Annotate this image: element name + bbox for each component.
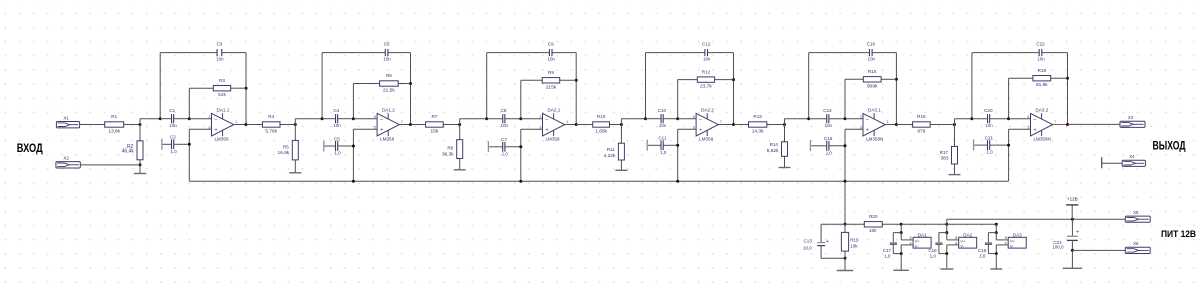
power pins unit DA1 (900, 223, 903, 226)
svg-text:6: 6 (693, 115, 695, 119)
IC power box DA1 (913, 237, 931, 248)
svg-text:ВЫХОД: ВЫХОД (1153, 140, 1187, 153)
capacitor C1 10n (input) (160, 118, 171, 120)
svg-text:LM358N: LM358N (866, 137, 883, 142)
svg-text:–: – (699, 117, 702, 123)
svg-text:R11: R11 (607, 147, 616, 152)
wire R19 bottom (844, 251, 846, 258)
wire non-inverting input (521, 128, 543, 130)
svg-text:ВХОД: ВХОД (17, 141, 43, 155)
svg-text:1,0: 1,0 (884, 253, 891, 258)
svg-text:100,0: 100,0 (1052, 245, 1064, 250)
wire non-inverting input (1009, 128, 1031, 130)
wire feedback loop top (487, 52, 550, 54)
node VDA3.1 (807, 117, 810, 120)
node inverting input junction (188, 117, 191, 120)
resistor R7 15k (series out) (411, 124, 426, 126)
svg-text:10k: 10k (869, 228, 877, 233)
svg-text:+: + (1033, 127, 1036, 133)
svg-text:7: 7 (1054, 120, 1056, 124)
svg-text:DA1: DA1 (918, 232, 927, 237)
node rail stage2 (352, 180, 355, 183)
resistor R5 16,9k (shunt) (294, 125, 296, 141)
resistor R12 23,7k (feedback) (678, 79, 698, 81)
node shunt junction (294, 123, 297, 126)
svg-text:X1: X1 (63, 115, 69, 120)
wire to opamp inverting input (678, 118, 696, 120)
wire to opamp inverting input (521, 118, 543, 120)
capacitor C13 10,0 (electrolytic) (821, 223, 845, 225)
wire feedback loop top (972, 52, 1039, 54)
svg-text:383: 383 (940, 156, 948, 162)
svg-text:1,0: 1,0 (171, 149, 178, 154)
svg-text:4: 4 (910, 241, 912, 245)
svg-text:1,0: 1,0 (502, 151, 509, 156)
node feedback-R junction (1066, 77, 1069, 80)
ground under R11 (620, 160, 622, 170)
svg-text:R18: R18 (1038, 68, 1047, 73)
svg-text:8: 8 (1005, 236, 1007, 240)
wire opamp output (1053, 124, 1068, 126)
capacitor C14 10n (input) (809, 118, 827, 120)
svg-text:46,4k: 46,4k (122, 149, 135, 155)
svg-text:C18: C18 (928, 248, 937, 253)
svg-text:LM358: LM358 (380, 137, 394, 142)
svg-text:+: + (1076, 229, 1079, 235)
capacitor C20 10n (input) (972, 118, 988, 120)
svg-text:R17: R17 (940, 150, 949, 155)
svg-text:+: + (545, 127, 548, 133)
wire opamp output (234, 124, 246, 126)
svg-text:R16: R16 (917, 114, 926, 119)
svg-text:R7: R7 (431, 114, 437, 119)
power pins unit DA3 (995, 223, 998, 226)
node inverting input junction (1007, 117, 1010, 120)
svg-text:8: 8 (955, 236, 957, 240)
capacitor C8 10n (input) (487, 118, 503, 120)
svg-text:R12: R12 (702, 69, 711, 74)
svg-text:976: 976 (917, 129, 925, 135)
wire feedback loop right (1067, 53, 1069, 125)
svg-text:DA2: DA2 (963, 232, 972, 237)
svg-text:5,76k: 5,76k (265, 129, 277, 135)
svg-text:–: – (380, 117, 383, 123)
svg-text:C12: C12 (702, 42, 711, 47)
wire bias vertical to rail (677, 129, 679, 181)
svg-text:C20: C20 (984, 108, 993, 113)
resistor R1 13,8k (105, 122, 124, 127)
svg-text:R19: R19 (850, 238, 859, 243)
wire bias vertical to rail (352, 129, 354, 181)
ground under R5 (294, 160, 296, 173)
node shunt junction (783, 123, 786, 126)
svg-text:X5: X5 (1133, 210, 1139, 215)
capacitor C17 1,0 (decoupling) (890, 242, 897, 244)
wire +12V jog up (946, 219, 948, 224)
wire bias vertical to rail (520, 129, 522, 181)
svg-text:10n: 10n (216, 56, 224, 61)
svg-text:61,9k: 61,9k (1036, 82, 1048, 88)
svg-text:4: 4 (1005, 241, 1007, 245)
svg-text:C21: C21 (985, 135, 994, 140)
svg-text:+: + (866, 127, 869, 133)
svg-text:DA2.2: DA2.2 (701, 108, 714, 113)
wire feedback loop right (410, 53, 412, 125)
connector X6 (1125, 247, 1150, 253)
power pins unit DA2 (945, 223, 948, 226)
svg-text:DA1.2: DA1.2 (382, 108, 395, 113)
resistor R6 21,5k (feedback) (353, 83, 379, 85)
svg-text:10n: 10n (659, 123, 667, 128)
wire X4 stub (1102, 162, 1123, 164)
svg-text:DA3: DA3 (1013, 232, 1022, 237)
wire feedback loop top (322, 52, 385, 54)
node feedback-R junction (409, 82, 412, 85)
wire to opamp inverting input (353, 118, 377, 120)
svg-text:–: – (1033, 117, 1036, 123)
wire feedback loop top (646, 52, 705, 54)
wire non-inverting input (845, 128, 863, 130)
svg-text:10n: 10n (501, 123, 509, 128)
svg-text:7: 7 (401, 120, 403, 124)
node output junction (409, 123, 412, 126)
wire bias vertical to rail (188, 129, 190, 181)
wire power vertical from rail (844, 181, 846, 224)
svg-text:10n: 10n (703, 56, 711, 61)
svg-text:C16: C16 (867, 42, 876, 47)
wire feedback R to inverting input (1008, 78, 1010, 119)
node bias cap junction (519, 145, 522, 148)
wire feedback loop left (stage DA1.2) (321, 53, 323, 119)
svg-text:10,0: 10,0 (803, 245, 812, 250)
svg-text:2: 2 (860, 115, 862, 119)
resistor R4 5,76k (series out) (246, 124, 262, 126)
node bias cap junction (188, 143, 191, 146)
node feedback-R junction (895, 78, 898, 81)
power symbol +12В (1066, 204, 1078, 206)
svg-text:R8: R8 (447, 146, 453, 151)
svg-text:LM358: LM358 (699, 137, 713, 142)
node bias cap junction (844, 144, 847, 147)
svg-text:R5: R5 (283, 145, 289, 150)
wire bias vertical to rail (1008, 129, 1010, 181)
node R1/R2 junction (139, 123, 142, 126)
wire non-inverting input (189, 128, 211, 130)
op-amp DA1.1 LM358 (212, 113, 234, 135)
op-amp DA2.2 LM358 (696, 113, 718, 135)
resistor R11 4,22k (shunt) (620, 125, 622, 144)
node bias cap junction (676, 144, 679, 147)
wire feedback R to inverting input (677, 80, 679, 119)
wire to opamp inverting input (845, 118, 863, 120)
svg-text:1,0: 1,0 (335, 151, 342, 156)
svg-text:X2: X2 (63, 155, 69, 160)
svg-text:909k: 909k (867, 83, 878, 89)
node C13 bottom junction (844, 257, 847, 260)
svg-text:51k: 51k (218, 92, 226, 98)
svg-text:DA2.1: DA2.1 (548, 108, 561, 113)
svg-text:36,3k: 36,3k (442, 152, 454, 158)
wire to opamp inverting input (1009, 118, 1031, 120)
resistor R18 61,9k (feedback) (1009, 77, 1033, 79)
wire opamp output (885, 124, 896, 126)
node inverting input junction (352, 117, 355, 120)
op-amp DA1.2 LM358 (377, 113, 399, 135)
resistor R19 10k (vertical) (844, 224, 846, 232)
node feedback-R junction (575, 79, 578, 82)
svg-text:C3: C3 (216, 42, 222, 47)
wire non-inverting input (678, 128, 696, 130)
ground under R14 (784, 156, 786, 167)
node rail stage4 (676, 180, 679, 183)
svg-text:10n: 10n (825, 123, 833, 128)
wire feedback loop top (809, 52, 870, 54)
svg-text:1,65k: 1,65k (595, 129, 607, 135)
wire feedback loop right (733, 53, 735, 125)
ground under R19 (844, 258, 846, 270)
wire feedback loop right (245, 53, 247, 125)
svg-text:R20: R20 (869, 214, 878, 219)
svg-text:16,9k: 16,9k (278, 150, 290, 156)
wire to next stage (294, 119, 296, 125)
node VDA2.1 (485, 117, 488, 120)
node inverting input junction (844, 117, 847, 120)
svg-text:C11: C11 (658, 136, 667, 141)
capacitor C4 10n (input) (322, 118, 335, 120)
svg-text:10n: 10n (333, 123, 341, 128)
wire +12V lower segment (901, 223, 947, 225)
ground under DA3 (995, 254, 997, 269)
node rail to power section (844, 180, 847, 183)
capacitor C9 10n (feedback) (548, 49, 550, 56)
resistor R2 46,4k (to ground) (139, 125, 141, 141)
wire X2 to ground node (80, 164, 140, 166)
svg-text:+: + (214, 127, 217, 133)
wire output to X3 (1068, 123, 1121, 125)
connector X2 (56, 162, 80, 168)
capacitor C16 10n (feedback) (869, 49, 871, 56)
svg-text:14,3k: 14,3k (752, 129, 764, 135)
svg-text:C6: C6 (384, 42, 390, 47)
wire opamp output (399, 124, 410, 126)
svg-text:C19: C19 (978, 248, 987, 253)
capacitor C12 10n (feedback) (704, 49, 706, 56)
node feedback-R junction (732, 78, 735, 81)
svg-text:C1: C1 (169, 108, 175, 113)
connector X5 (1125, 216, 1150, 222)
svg-text:–: – (214, 117, 217, 123)
wire R1 to node (124, 124, 140, 126)
node output junction (732, 123, 735, 126)
svg-text:10n: 10n (985, 123, 993, 128)
resistor R20 10k (845, 223, 864, 225)
svg-text:–: – (545, 117, 548, 123)
svg-text:1: 1 (887, 120, 889, 124)
svg-text:C9: C9 (548, 42, 554, 47)
wire to next stage (459, 119, 461, 125)
svg-text:R6: R6 (386, 73, 392, 78)
svg-text:2: 2 (539, 115, 541, 119)
svg-text:C7: C7 (501, 137, 507, 142)
connector X1 (56, 122, 79, 128)
node inverting input junction (519, 117, 522, 120)
node power top junction (844, 223, 847, 226)
open end bar at X4 wire (1101, 157, 1103, 168)
svg-text:2: 2 (208, 115, 210, 119)
svg-text:10n: 10n (169, 123, 177, 128)
svg-text:10n: 10n (1037, 56, 1045, 61)
node VDA3.2 (970, 117, 973, 120)
wire feedback loop left (stage DA3.2) (971, 53, 973, 119)
wire jog up to C1 row (139, 119, 141, 125)
wire +12V to connector X5 (947, 218, 1126, 220)
svg-text:10k: 10k (850, 244, 858, 249)
IC power box DA3 (1008, 237, 1026, 248)
capacitor C23 100,0 (electrolytic) (1071, 219, 1073, 236)
wire feedback R to inverting input (188, 88, 190, 119)
svg-text:21,5k: 21,5k (383, 88, 395, 94)
wire feedback loop right (895, 53, 897, 125)
svg-text:LM358N: LM358N (1034, 137, 1051, 142)
wire X6 (1072, 249, 1125, 251)
wire to next stage (620, 119, 622, 125)
IC power box DA2 (959, 237, 977, 248)
svg-text:4,22k: 4,22k (604, 153, 616, 159)
capacitor C2 1,0 (bias) (161, 139, 163, 150)
svg-text:C15: C15 (824, 136, 833, 141)
node VDA1.1 (159, 117, 162, 120)
wire feedback loop top (160, 52, 217, 54)
node VDA1.2 (321, 117, 324, 120)
wire to opamp inverting input (189, 118, 211, 120)
svg-text:C13: C13 (804, 239, 813, 244)
svg-text:+: + (826, 239, 829, 245)
wire feedback loop left (stage DA1.1) (159, 53, 161, 119)
wire feedback loop right (575, 53, 577, 125)
svg-text:1,0: 1,0 (930, 253, 937, 258)
svg-text:13,8k: 13,8k (108, 129, 120, 135)
connector X4 (1122, 160, 1145, 166)
ground under R8 (459, 159, 461, 170)
wire feedback R to inverting input (844, 79, 846, 118)
ground under DA1 (900, 254, 902, 271)
node X6 junction (1071, 249, 1074, 252)
svg-text:+: + (699, 127, 702, 133)
svg-text:+: + (380, 127, 383, 133)
node shunt junction (953, 123, 956, 126)
svg-text:+12В: +12В (1067, 197, 1078, 202)
wire feedback R to inverting input (520, 80, 522, 118)
svg-text:R3: R3 (219, 78, 225, 83)
resistor R17 383 (shunt) (954, 125, 956, 147)
capacitor C19 1,0 (decoupling) (985, 242, 992, 244)
wire feedback loop left (stage DA2.1) (486, 53, 488, 119)
resistor R10 1,65k (series out) (576, 124, 593, 126)
wire X1 to R1 (80, 124, 105, 126)
node shunt junction (458, 123, 461, 126)
svg-text:C22: C22 (1036, 42, 1045, 47)
wire feedback R to inverting input (352, 84, 354, 119)
capacitor C6 10n (feedback) (384, 49, 386, 56)
bias rail wire (189, 180, 1008, 182)
svg-text:C2: C2 (170, 135, 176, 140)
capacitor C3 10n (feedback) (216, 49, 218, 56)
capacitor C18 1,0 (decoupling) (935, 242, 942, 244)
svg-text:7: 7 (720, 120, 722, 124)
svg-text:R10: R10 (597, 114, 606, 119)
svg-text:1,0: 1,0 (660, 150, 667, 155)
svg-text:1,0: 1,0 (979, 253, 986, 258)
node output junction (575, 123, 578, 126)
node output junction (1066, 123, 1069, 126)
ground under C23 (1071, 250, 1073, 268)
node rail stage3 (519, 180, 522, 183)
svg-text:LM358: LM358 (215, 137, 229, 142)
svg-text:C5: C5 (334, 136, 340, 141)
svg-text:C17: C17 (883, 248, 892, 253)
svg-text:1,0: 1,0 (987, 150, 994, 155)
svg-text:8: 8 (910, 236, 912, 240)
svg-text:15k: 15k (431, 129, 439, 135)
svg-text:R4: R4 (268, 114, 274, 119)
node feedback-R junction (245, 87, 248, 90)
op-amp DA3.2 LM358N (1031, 113, 1053, 135)
svg-text:DA3.2: DA3.2 (1036, 108, 1049, 113)
wire opamp output (718, 124, 733, 126)
capacitor C7 1,0 (bias) (487, 141, 489, 152)
svg-text:DA1.1: DA1.1 (217, 108, 230, 113)
capacitor C10 10n (input) (646, 118, 662, 120)
svg-text:ПИТ 12В: ПИТ 12В (1161, 229, 1196, 239)
svg-text:R14: R14 (770, 142, 779, 147)
capacitor C15 1,0 (bias) (809, 140, 811, 151)
svg-text:215k: 215k (546, 84, 557, 90)
capacitor C21 1,0 (bias) (973, 139, 975, 150)
svg-text:1: 1 (235, 120, 237, 124)
node inverting input junction (676, 117, 679, 120)
resistor R14 5,62k (shunt) (784, 125, 786, 142)
node bias cap junction (352, 145, 355, 148)
wire R2 bottom (139, 160, 141, 165)
resistor R9 215k (feedback) (521, 79, 542, 81)
svg-text:R9: R9 (548, 70, 554, 75)
node output junction (245, 123, 248, 126)
svg-text:23,7k: 23,7k (700, 84, 712, 90)
capacitor C11 1,0 (bias) (646, 140, 648, 151)
svg-text:C10: C10 (658, 108, 667, 113)
node +12V / C23 (1071, 218, 1074, 221)
resistor R13 14,3k (series out) (734, 124, 749, 126)
svg-text:X3: X3 (1128, 115, 1134, 120)
resistor R8 36,3k (shunt) (459, 125, 461, 140)
svg-text:–: – (866, 117, 869, 123)
node bias cap junction (1007, 144, 1010, 147)
connector X3 (1120, 121, 1145, 127)
resistor R15 909k (feedback) (845, 78, 863, 80)
wire opamp output (565, 124, 577, 126)
svg-text:LM358: LM358 (546, 137, 560, 142)
svg-text:R15: R15 (868, 69, 877, 74)
resistor R16 976 (series out) (896, 124, 912, 126)
ground under DA2 (946, 254, 948, 269)
svg-text:DA3.1: DA3.1 (868, 108, 881, 113)
wire bias vertical to rail (844, 129, 846, 181)
op-amp DA3.1 LM358N (863, 113, 885, 135)
node VDA2.2 (644, 117, 647, 120)
node output junction (895, 123, 898, 126)
capacitor C5 1,0 (bias) (323, 140, 325, 151)
svg-text:C14: C14 (823, 108, 832, 113)
